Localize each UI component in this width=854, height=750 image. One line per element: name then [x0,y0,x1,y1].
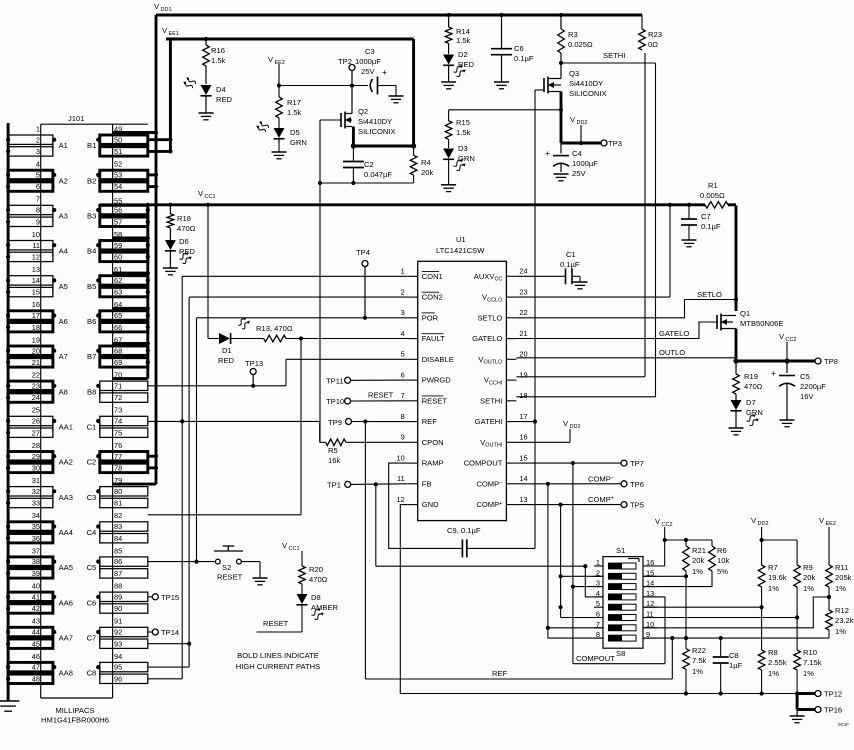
J101 pin 56 (B3) [87,205,148,222]
J101 pin 34 [32,511,40,520]
svg-text:CC1: CC1 [289,546,300,552]
J101 pin 72 (B8) [100,393,148,402]
J101 pin 11 (A4) [6,241,68,257]
svg-text:D8: D8 [311,593,321,602]
svg-text:Q1: Q1 [740,309,750,318]
ground below D2 [441,65,456,89]
wire VCC2 to R21/R6 and switch pin 16 [643,538,712,566]
U1 pin 9 CPON [401,433,444,447]
svg-text:D4: D4 [216,85,226,94]
ground at TP16 [790,710,805,723]
svg-text:0.025Ω: 0.025Ω [568,40,593,49]
resistor R11 205k 1% [824,563,852,610]
svg-text:R17: R17 [287,98,301,107]
svg-text:30: 30 [32,464,40,473]
J101 pin 85 [114,546,122,555]
svg-text:GRN: GRN [458,154,475,163]
svg-text:10: 10 [32,230,40,239]
J101 pin 64 [113,300,148,309]
J101 pin 66 (B6) [100,323,148,332]
svg-text:79: 79 [114,476,122,485]
svg-text:A6: A6 [59,317,68,326]
svg-text:89: 89 [114,592,122,601]
svg-text:2: 2 [36,135,40,144]
svg-text:470Ω: 470Ω [177,224,196,233]
wire VEE2 row to C3 [279,85,368,87]
svg-text:TP14: TP14 [161,628,179,637]
svg-text:SETHI: SETHI [603,51,625,60]
svg-text:R1: R1 [708,181,718,190]
wire VEE1 riser to pins 50/51 [148,39,173,153]
J101 pin 82 [114,511,122,520]
ground below D6 [163,251,178,275]
svg-text:92: 92 [114,628,122,637]
J101 pin 67 [113,335,148,344]
wire R23 to pin 19 VCCHI [516,53,645,377]
svg-text:0.005Ω: 0.005Ω [700,191,725,200]
J101 pin 90 (C6) [100,604,148,613]
svg-text:25V: 25V [361,67,375,76]
J101 pin 18 (A6) [6,323,53,332]
svg-text:R13, 470Ω: R13, 470Ω [256,324,293,333]
svg-text:AA5: AA5 [59,563,73,572]
U1 pin 22 SETLO [477,308,527,322]
J101 pin 75 (C1) [100,428,148,437]
resistor R3 0.025ohm [558,13,593,63]
wire COMP+ pin 13 to TP5 [516,495,621,507]
wire C2/R4 bottom to CPON net [318,181,414,185]
wire CON1 pin 1 to J101 pins 74/96 [148,276,408,679]
svg-text:9: 9 [36,217,40,226]
svg-text:1.5k: 1.5k [287,108,302,117]
J101 pin 59 (B4) [87,241,148,257]
S1 pin 15 [643,568,657,577]
wire RAMP pin 10 to C9 [389,463,463,548]
testpoint TP16 [797,694,842,715]
J101 pin 48 (AA8) [6,674,53,683]
U1 pin 23 VCCLO [482,287,528,303]
svg-text:20: 20 [32,346,40,355]
svg-text:29: 29 [32,452,40,461]
U1 pin 14 COMP- [476,474,527,488]
svg-text:66: 66 [114,323,122,332]
svg-text:0C1F: 0C1F [838,722,849,727]
svg-text:1.5k: 1.5k [211,56,226,65]
J101 pin 53 (B2) [87,170,148,186]
svg-text:20k: 20k [692,556,704,565]
svg-text:+: + [545,148,550,158]
svg-text:7: 7 [401,391,405,400]
svg-text:C5: C5 [800,372,810,381]
svg-text:84: 84 [114,534,122,543]
svg-text:D5: D5 [290,128,300,137]
J101 pin 22 [32,371,40,380]
svg-text:17: 17 [32,311,40,320]
svg-text:RED: RED [218,356,235,365]
svg-text:1%: 1% [768,584,779,593]
U1 pin 21 GATELO [472,329,527,343]
svg-text:R8: R8 [768,648,778,657]
svg-text:63: 63 [114,288,122,297]
U1 pin 17 GATEHI [475,412,528,426]
svg-text:C2: C2 [87,458,97,467]
svg-text:21: 21 [32,358,40,367]
J101 left-column ground bus [7,123,10,697]
net VDD2 label at TP3 [570,115,588,145]
U1 pin 16 VOUTHI [480,433,527,449]
wire COMP+ riser to switch rows 2/5/6 [559,505,604,618]
svg-text:53: 53 [114,171,122,180]
testpoint TP10 / RESET net [326,391,408,407]
svg-text:R5: R5 [328,446,338,455]
svg-text:50: 50 [114,135,122,144]
svg-text:18: 18 [32,323,40,332]
U1 pin 10 RAMP [396,453,443,467]
svg-text:13: 13 [519,495,527,504]
U1 pin 8 REF [401,412,438,426]
wire Q2 source to VEE rail (bold) [353,127,413,147]
svg-text:20k: 20k [421,168,433,177]
svg-text:90: 90 [114,604,122,613]
svg-text:8: 8 [36,206,40,215]
svg-text:SETHI: SETHI [480,396,502,405]
svg-text:TP16: TP16 [824,706,842,715]
svg-text:COMP−: COMP− [588,475,614,484]
svg-text:AA4: AA4 [59,528,73,537]
ground below C4 [554,174,569,181]
svg-text:4: 4 [401,329,405,338]
svg-text:AA6: AA6 [59,598,73,607]
LED D1 RED [208,205,250,365]
svg-text:0Ω: 0Ω [648,40,658,49]
wire VCC1 riser to pins 56-70 [146,205,150,379]
svg-text:R21: R21 [692,546,706,555]
svg-text:C1: C1 [87,423,97,432]
svg-text:C8: C8 [729,651,739,660]
svg-text:88: 88 [114,582,122,591]
svg-text:RESET: RESET [368,391,394,400]
J101 pin 23 (A8) [6,381,68,398]
svg-text:C4: C4 [87,528,97,537]
svg-text:1%: 1% [692,567,703,576]
transistor Q3 Si4410DY SILICONIX [544,63,607,98]
svg-text:2: 2 [401,287,405,296]
svg-text:23: 23 [32,381,40,390]
J101 pin 4 [36,160,40,169]
svg-text:TP11: TP11 [326,377,344,386]
J101 pin 78 (C2) [100,463,148,472]
svg-text:GRN: GRN [290,138,307,147]
svg-text:EE2: EE2 [826,521,836,527]
LED D8 AMBER [297,584,339,620]
svg-text:41: 41 [32,592,40,601]
svg-text:51: 51 [114,147,122,156]
svg-text:GATELO: GATELO [472,334,502,343]
svg-text:R4: R4 [421,158,431,167]
svg-text:1%: 1% [692,667,703,676]
svg-text:POR: POR [422,313,439,322]
J101 pin 9 (A3) [6,217,53,226]
resistor R21 20k 1% [643,540,706,578]
svg-text:6: 6 [401,370,405,379]
testpoint TP5 [621,501,644,510]
svg-text:52: 52 [114,160,122,169]
J101 pin 77 (C2) [87,452,148,468]
wire Q3 gate to GATEHI riser [535,90,544,108]
LED D7 GRN [731,394,763,426]
svg-text:0.1µF: 0.1µF [701,222,721,231]
J101 pin 89 (C6) [87,592,148,608]
J101 pin 87 (C5) [100,569,148,578]
svg-text:D6: D6 [179,237,189,246]
J101 pin 43 [32,617,40,626]
switch S1/S8 DIP-8 [576,546,643,663]
svg-text:65: 65 [114,311,122,320]
svg-text:61: 61 [114,265,122,274]
J101 pin 37 [32,546,40,555]
svg-text:CON2: CON2 [422,293,443,302]
svg-text:TP7: TP7 [630,459,644,468]
J101 pin 49 [113,124,156,133]
J101 pin 68 (B7) [87,346,148,362]
wire Q2 gate to CPON riser [320,120,341,442]
capacitor C3 1000uF 25V [355,47,396,95]
resistor R6 10k 5% [643,540,729,587]
J101 pin 45 (AA7) [6,639,53,648]
svg-text:46: 46 [32,652,40,661]
svg-text:C8: C8 [87,669,97,678]
resistor R7 19.6k 1% [758,540,786,609]
svg-text:GATEHI: GATEHI [475,417,503,426]
wire COMPOUT pin 15 to TP7 [516,461,621,465]
svg-text:77: 77 [114,452,122,461]
J101 pin 73 [114,406,122,415]
S1 pin 5 [594,599,603,608]
S1 pin 1 [594,558,603,567]
svg-text:1.5k: 1.5k [456,128,471,137]
J101 pin 42 (AA6) [6,604,53,613]
svg-text:58: 58 [114,230,122,239]
wire GATEHI pin 17 stub [516,421,535,423]
svg-text:CC2: CC2 [662,522,673,528]
testpoint TP6 [621,480,644,489]
J101 pin 29 (AA2) [6,452,73,468]
svg-text:A3: A3 [59,212,68,221]
svg-text:D3: D3 [458,144,468,153]
svg-text:TP12: TP12 [824,690,842,699]
J101 pin 3 (A1) [6,147,53,156]
ground below C6 [494,55,509,89]
svg-text:TP15: TP15 [161,593,179,602]
svg-text:86: 86 [114,557,122,566]
resistor R15 1.5k [445,110,470,140]
wire GATEHI riser down to C9 [533,108,537,548]
svg-text:95: 95 [114,663,122,672]
connector J101 MILLIPACS HM1G41FBR000H6 [41,114,148,698]
svg-text:AA1: AA1 [59,423,73,432]
ground below D3 [441,159,456,191]
svg-text:S1: S1 [616,546,625,555]
svg-text:22: 22 [519,308,527,317]
J101 pin 76 [114,441,122,450]
svg-text:37: 37 [32,546,40,555]
svg-text:74: 74 [114,417,122,426]
svg-text:RESET: RESET [217,573,243,582]
J101 pin 33 (AA3) [6,498,53,507]
wire SETHI to pin 18 [516,63,655,397]
capacitor C9 0.1uF [447,526,535,557]
J101 pin 84 (C4) [100,534,148,543]
J101 pin 8 (A3) [6,205,68,222]
J101 pin 10 [32,230,40,239]
wire DISABLE pin 5 to J101 pin 71 [148,359,408,386]
J101 pin 80 (C3) [87,487,148,503]
svg-text:RESET: RESET [422,396,448,405]
svg-text:A2: A2 [59,176,68,185]
svg-text:60: 60 [114,253,122,262]
J101 pin 96 (C8) [100,674,148,683]
testpoint TP4 [356,248,370,320]
svg-text:TP3: TP3 [608,139,622,148]
wire switch row 5 to R7/R8 tap [643,606,762,608]
ground right of S2 [241,562,267,585]
svg-text:MTB50N06E: MTB50N06E [740,319,783,328]
svg-text:96: 96 [114,674,122,683]
U1 pin 13 COMP+ [476,495,527,509]
svg-text:R16: R16 [211,46,225,55]
svg-text:76: 76 [114,441,122,450]
svg-text:78: 78 [114,464,122,473]
svg-text:18: 18 [519,391,527,400]
resistor R20 470ohm [299,565,328,584]
net VEE1 rail [162,26,414,39]
J101 pin 21 (A7) [6,358,53,367]
svg-text:Si4410DY: Si4410DY [569,79,603,88]
J101 pin 81 (C3) [100,498,148,507]
transistor Q1 MTB50N06E [717,309,783,331]
svg-text:MILLIPACS: MILLIPACS [55,706,94,715]
svg-text:CPON: CPON [422,438,444,447]
J101 pin 63 (B5) [100,287,148,296]
svg-text:C3: C3 [365,47,375,56]
svg-text:REF: REF [492,669,508,678]
svg-text:BOLD LINES INDICATE: BOLD LINES INDICATE [237,651,319,660]
svg-text:75: 75 [114,428,122,437]
svg-text:DD2: DD2 [570,424,581,430]
svg-text:48: 48 [32,674,40,683]
svg-text:0.047µF: 0.047µF [364,170,392,179]
svg-text:57: 57 [114,217,122,226]
J101 pin 31 [32,476,40,485]
svg-text:1.5k: 1.5k [456,36,471,45]
svg-text:R3: R3 [568,30,578,39]
ground below D7 [729,411,744,435]
capacitor C1 0.1uF (AUXVCC) [516,250,587,289]
net VEE2 label (top) [268,55,285,86]
svg-text:32: 32 [32,487,40,496]
node SETHI [559,51,656,65]
LED D6 RED [165,228,196,264]
U1 pin 6 PWRGD [401,370,452,384]
svg-text:A7: A7 [59,352,68,361]
svg-text:B2: B2 [87,176,96,185]
svg-text:CON1: CON1 [422,272,443,281]
J101 pin 51 (B1) [100,147,148,156]
svg-text:67: 67 [114,335,122,344]
capacitor C5 2200uF 16V [771,361,826,420]
svg-text:REF: REF [422,417,438,426]
node SETLO [516,290,738,318]
svg-text:AMBER: AMBER [311,603,339,612]
wire switch row 8 / pin 9 REF line [643,636,829,679]
U1 pin 1 CON1 [401,267,443,281]
svg-text:23: 23 [519,287,527,296]
resistor R23 0ohm [639,15,662,50]
svg-text:A8: A8 [59,387,68,396]
J101 pin 52 [114,160,122,169]
svg-text:R6: R6 [717,546,727,555]
svg-text:3: 3 [401,308,405,317]
svg-text:470Ω: 470Ω [309,575,328,584]
svg-text:C4: C4 [572,149,582,158]
testpoint TP14 [148,628,179,637]
svg-text:COMPOUT: COMPOUT [464,459,503,468]
wire OUTLO pin 20 to Q1 source node [516,348,736,358]
ground below C5 [780,420,795,427]
svg-text:TP1: TP1 [327,481,341,490]
svg-text:4: 4 [36,160,40,169]
wire CON2 pin 2 to J101 pins 93/95 [148,297,408,667]
svg-text:C3: C3 [87,493,97,502]
svg-text:2200µF: 2200µF [800,382,826,391]
net VDD2 label at R7 [751,516,797,542]
S1 pin 3 [594,579,603,588]
U1 pin 20 VOUTLO [478,350,527,366]
U1 pin 5 DISABLE [401,350,454,364]
svg-text:Q3: Q3 [569,69,579,78]
svg-text:TP4: TP4 [356,248,370,257]
LED D4 RED [183,66,232,104]
svg-text:R22: R22 [692,646,706,655]
J101 pin 58 [113,230,148,239]
net VEE2 label at R11 [819,516,836,565]
svg-text:25: 25 [32,406,40,415]
svg-text:19: 19 [32,335,40,344]
capacitor C7 0.1uF [681,205,721,231]
wire switch row 6 to R9/R10 tap [643,617,797,619]
svg-text:DD2: DD2 [758,521,769,527]
svg-text:40: 40 [32,582,40,591]
svg-text:D2: D2 [458,50,468,59]
J101 pin 57 (B3) [100,217,148,226]
J101 pin 5 (A2) [6,170,68,186]
net VCC1 rail [100,189,736,207]
wire VDD1 riser to pins 49/53/54 and 77/78/79 [148,15,158,484]
svg-text:26: 26 [32,417,40,426]
J101 pin 35 (AA4) [6,522,73,538]
svg-text:47: 47 [32,663,40,672]
capacitor C8 1uF [713,638,743,696]
svg-text:17: 17 [519,412,527,421]
testpoint TP2 [338,57,355,88]
svg-text:1000µF: 1000µF [355,57,381,66]
J101 pin 94 [114,652,122,661]
svg-text:7: 7 [36,195,40,204]
ground at J101 bus bottom [0,697,19,711]
svg-text:1: 1 [401,267,405,276]
svg-text:83: 83 [114,522,122,531]
svg-text:12: 12 [396,495,404,504]
